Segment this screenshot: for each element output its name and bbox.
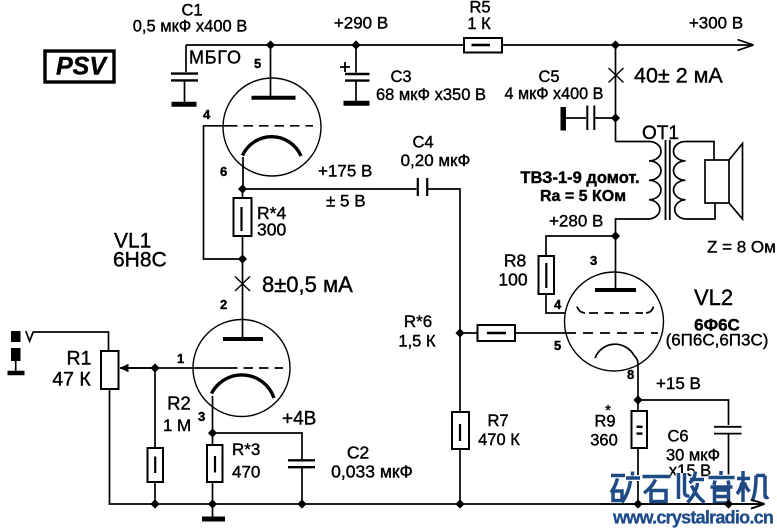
svg-text:1 М: 1 М xyxy=(163,416,191,435)
svg-text:47 К: 47 К xyxy=(52,369,91,391)
measurement mark 40 mA xyxy=(609,68,624,83)
svg-text:1,5 К: 1,5 К xyxy=(398,333,436,351)
resistor R6 xyxy=(460,325,566,341)
node VL1b cathode / R3 / C2 xyxy=(208,428,217,437)
VL2 control grid xyxy=(566,332,658,334)
svg-text:3: 3 xyxy=(590,253,597,268)
svg-text:40± 2 мА: 40± 2 мА xyxy=(634,64,723,88)
svg-text:+290 В: +290 В xyxy=(334,14,388,33)
transformer OT1 core xyxy=(666,140,670,220)
svg-text:470 К: 470 К xyxy=(478,431,520,449)
svg-text:*: * xyxy=(605,402,611,419)
svg-text:4 мкФ х400 В: 4 мкФ х400 В xyxy=(505,85,604,103)
svg-text:С3: С3 xyxy=(390,68,411,86)
svg-text:3: 3 xyxy=(198,409,205,424)
arrow +300V rail end xyxy=(738,40,754,51)
svg-text:8: 8 xyxy=(627,367,634,382)
tube VL1 upper triode envelope xyxy=(223,78,321,176)
svg-text:(6П6С,6П3С): (6П6С,6П3С) xyxy=(666,331,769,350)
resistor R5 xyxy=(464,38,502,53)
svg-text:4: 4 xyxy=(554,297,562,312)
VL1b grid xyxy=(120,367,283,369)
svg-text:6Н8С: 6Н8С xyxy=(113,249,167,272)
svg-text:Ra = 5 КОм: Ra = 5 КОм xyxy=(540,188,626,205)
capacitor C3 xyxy=(340,45,370,101)
node C4 / R6 / R7 xyxy=(455,328,464,337)
svg-text:С6: С6 xyxy=(667,428,688,446)
capacitor C1 xyxy=(171,45,198,102)
capacitor C2 xyxy=(288,460,315,504)
svg-text:+4В: +4В xyxy=(282,409,316,430)
tube VL2 envelope xyxy=(565,272,664,371)
resistor R2 xyxy=(148,368,164,504)
svg-text:R7: R7 xyxy=(487,412,508,430)
svg-text:+280 В: +280 В xyxy=(549,212,603,231)
svg-text:68 мкФ х350 В: 68 мкФ х350 В xyxy=(376,86,486,104)
resistor R9 xyxy=(632,400,648,504)
VL1a anode xyxy=(252,45,296,98)
svg-text:8±0,5 мА: 8±0,5 мА xyxy=(262,272,353,297)
svg-text:360: 360 xyxy=(590,432,618,450)
svg-text:R*6: R*6 xyxy=(404,312,432,331)
resistor R4 xyxy=(234,189,252,258)
VL1a cathode xyxy=(243,137,302,188)
ground (input) xyxy=(8,371,25,376)
svg-text:6: 6 xyxy=(220,164,227,179)
arrow ground bus end xyxy=(751,500,765,509)
wire cathode to C2 xyxy=(213,433,303,459)
wire +300 rail down to OT1 xyxy=(615,45,617,142)
arrow ground bus end redraw xyxy=(751,500,765,509)
watermark char shou xyxy=(679,472,705,503)
svg-text:VL2: VL2 xyxy=(694,285,733,310)
node R4 bottom / grid feedback xyxy=(238,254,247,263)
transformer OT1 secondary xyxy=(673,142,715,220)
node VL2 cathode / R9 / C6 xyxy=(633,395,642,404)
node bus C2 xyxy=(297,499,306,508)
svg-text:+175 В: +175 В xyxy=(318,162,372,181)
watermark char kuang xyxy=(611,472,640,503)
svg-text:R1: R1 xyxy=(67,348,92,370)
watermark xyxy=(611,471,773,528)
watermark char ji xyxy=(737,471,769,502)
speaker BA xyxy=(705,144,743,220)
wire grid feedback xyxy=(204,126,243,259)
potentiometer R1 xyxy=(101,351,155,504)
svg-text:1 К: 1 К xyxy=(467,15,491,33)
capacitor C5 xyxy=(561,106,616,131)
capacitor C4 xyxy=(418,178,460,333)
wire top rail right (+300V section) xyxy=(502,44,754,46)
VL1b cathode xyxy=(212,375,275,432)
svg-text:0,20 мкФ: 0,20 мкФ xyxy=(401,151,471,170)
svg-text:R2: R2 xyxy=(167,393,191,414)
node R1 wiper / R2 / grid xyxy=(150,363,159,372)
svg-text:С2: С2 xyxy=(347,443,369,463)
node top rail / C3 xyxy=(351,40,360,49)
wire VL1a anode to C4 xyxy=(243,188,417,190)
node top rail / OT1 branch xyxy=(611,40,620,49)
node bus R7 xyxy=(455,499,464,508)
input connector XS xyxy=(11,331,33,371)
svg-text:МБГО: МБГО xyxy=(189,48,242,68)
svg-text:С5: С5 xyxy=(538,68,559,86)
ground (C3) xyxy=(344,101,370,106)
watermark char shi xyxy=(643,477,671,502)
transformer OT1 primary xyxy=(616,142,662,237)
resistor R8 xyxy=(539,256,566,313)
svg-text:0,033 мкФ: 0,033 мкФ xyxy=(331,462,413,482)
VL1a grid xyxy=(203,125,313,127)
node bus R2 xyxy=(150,499,159,508)
svg-text:Z = 8 Ом: Z = 8 Ом xyxy=(707,238,776,257)
svg-text:0,5 мкФ х400 В: 0,5 мкФ х400 В xyxy=(133,18,248,36)
svg-text:PSV: PSV xyxy=(56,53,108,81)
svg-text:± 5 В: ± 5 В xyxy=(326,192,366,211)
svg-text:ТВЗ-1-9 домот.: ТВЗ-1-9 домот. xyxy=(520,169,639,187)
svg-text:www.crystalradio.cn: www.crystalradio.cn xyxy=(612,508,773,528)
measurement mark 8 mA xyxy=(235,277,250,292)
PSV logo box xyxy=(45,51,114,82)
node VL1a cathode / R4 / C4 xyxy=(238,184,247,193)
node top rail / VL1 anode xyxy=(266,40,275,49)
svg-text:470: 470 xyxy=(232,463,260,482)
node bus R9 xyxy=(633,499,642,508)
svg-text:+15 В: +15 В xyxy=(656,374,701,393)
svg-text:+300 В: +300 В xyxy=(689,14,743,33)
ground (C1) xyxy=(172,102,197,107)
wire ground bus over watermark xyxy=(600,503,764,505)
VL2 cathode xyxy=(595,344,638,400)
wire cathode to C6 xyxy=(638,400,729,425)
VL2 anode xyxy=(595,236,636,290)
svg-text:ОТ1: ОТ1 xyxy=(642,123,679,144)
svg-text:300: 300 xyxy=(257,220,286,240)
wire input to R1 xyxy=(33,332,108,350)
tube VL1 lower triode envelope xyxy=(193,320,290,417)
ground bus wire xyxy=(109,503,765,505)
node OT1 / +280V / VL2 anode xyxy=(611,231,620,240)
resistor R7 xyxy=(452,333,469,504)
VL2 screen grid xyxy=(577,307,654,314)
ground (bus) xyxy=(202,504,225,519)
svg-text:5: 5 xyxy=(254,56,261,71)
svg-text:100: 100 xyxy=(498,270,527,290)
svg-text:5: 5 xyxy=(554,338,561,353)
wire +280V to R8 xyxy=(546,236,616,256)
wire top rail left (+290V section) xyxy=(186,44,464,46)
resistor R3 xyxy=(207,433,223,504)
node C5 / OT1 xyxy=(611,113,620,122)
svg-text:R*3: R*3 xyxy=(232,440,260,459)
VL1b anode xyxy=(223,337,263,341)
svg-text:2: 2 xyxy=(220,297,227,312)
capacitor C6 xyxy=(714,427,742,504)
svg-text:1: 1 xyxy=(177,351,184,366)
node bus C6 xyxy=(724,499,733,508)
node bus R3 xyxy=(208,499,217,508)
svg-text:R8: R8 xyxy=(504,251,526,271)
svg-text:С4: С4 xyxy=(412,134,433,152)
watermark char yin xyxy=(709,471,735,503)
svg-text:4: 4 xyxy=(203,107,211,122)
wire VL1b anode lead xyxy=(242,259,244,337)
